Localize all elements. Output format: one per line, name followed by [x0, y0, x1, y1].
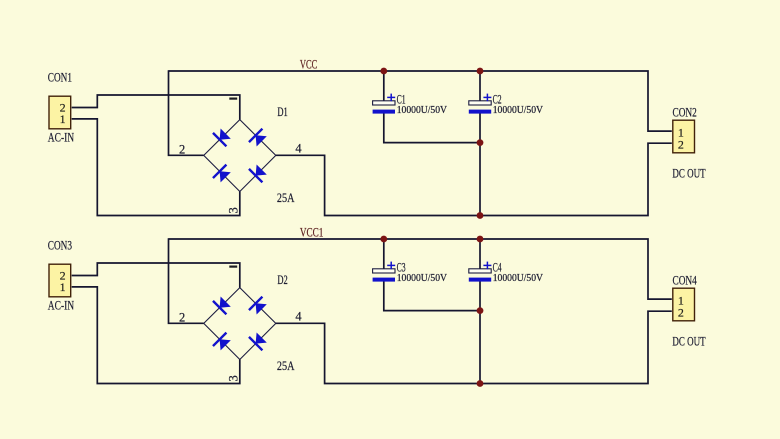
svg-text:VCC1: VCC1 — [300, 224, 324, 239]
svg-text:AC-IN: AC-IN — [48, 297, 75, 312]
svg-text:2: 2 — [179, 310, 185, 324]
svg-text:DC OUT: DC OUT — [672, 334, 705, 349]
svg-text:10000U/50V: 10000U/50V — [493, 273, 544, 284]
svg-text:25A: 25A — [277, 190, 295, 205]
svg-text:CON3: CON3 — [48, 238, 72, 253]
svg-text:10000U/50V: 10000U/50V — [397, 105, 448, 116]
svg-text:10000U/50V: 10000U/50V — [493, 105, 544, 116]
svg-text:1: 1 — [60, 112, 66, 126]
svg-text:DC OUT: DC OUT — [672, 166, 705, 181]
svg-text:D1: D1 — [277, 104, 287, 119]
svg-text:AC-IN: AC-IN — [48, 129, 75, 144]
svg-text:2: 2 — [678, 306, 684, 320]
svg-text:10000U/50V: 10000U/50V — [397, 273, 448, 284]
svg-text:2: 2 — [179, 142, 185, 156]
svg-text:3: 3 — [227, 375, 241, 381]
svg-text:CON2: CON2 — [673, 105, 697, 120]
svg-text:4: 4 — [295, 310, 302, 324]
svg-text:25A: 25A — [277, 358, 295, 373]
svg-text:1: 1 — [60, 280, 66, 294]
svg-text:CON1: CON1 — [48, 70, 72, 85]
svg-text:2: 2 — [678, 138, 684, 152]
svg-text:CON4: CON4 — [673, 273, 698, 288]
svg-text:VCC: VCC — [300, 56, 317, 71]
svg-text:4: 4 — [295, 142, 302, 156]
svg-text:D2: D2 — [277, 272, 287, 287]
svg-text:3: 3 — [227, 207, 241, 213]
